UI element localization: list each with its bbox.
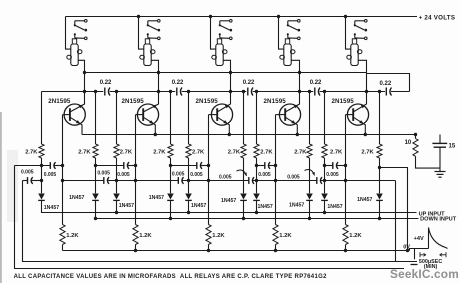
svg-text:0.005: 0.005	[44, 172, 57, 178]
svg-text:0.22: 0.22	[310, 80, 322, 86]
svg-text:1.2K: 1.2K	[349, 233, 362, 239]
svg-text:DOWN INPUT: DOWN INPUT	[420, 217, 457, 223]
svg-text:1N457: 1N457	[191, 203, 206, 209]
svg-text:1.2K: 1.2K	[66, 233, 79, 239]
svg-text:2.7K: 2.7K	[25, 149, 38, 155]
svg-text:0.005: 0.005	[117, 172, 130, 178]
svg-text:2N1595: 2N1595	[196, 98, 219, 105]
svg-text:1N457: 1N457	[119, 203, 134, 209]
svg-text:1.2K: 1.2K	[279, 233, 292, 239]
svg-text:ALL CAPACITANCE VALUES ARE IN: ALL CAPACITANCE VALUES ARE IN MICROFARAD…	[14, 274, 327, 280]
svg-text:2.7K: 2.7K	[361, 149, 374, 155]
svg-text:2N1595: 2N1595	[332, 98, 355, 105]
svg-text:1N457: 1N457	[289, 203, 304, 209]
svg-text:0.005: 0.005	[190, 172, 203, 178]
svg-text:2.7K: 2.7K	[192, 149, 205, 155]
svg-text:0.005: 0.005	[219, 175, 232, 181]
svg-text:1N457: 1N457	[221, 198, 236, 204]
svg-text:2.7K: 2.7K	[120, 149, 133, 155]
svg-text:0.005: 0.005	[97, 170, 110, 176]
svg-text:2.7K: 2.7K	[78, 149, 91, 155]
svg-text:0.22: 0.22	[100, 80, 112, 86]
svg-text:0.005: 0.005	[326, 172, 339, 178]
svg-text:1N457: 1N457	[327, 204, 342, 210]
svg-text:2.7K: 2.7K	[294, 149, 307, 155]
svg-text:0.22: 0.22	[380, 81, 392, 87]
svg-text:0.005: 0.005	[287, 174, 300, 180]
svg-text:+ 24 VOLTS: + 24 VOLTS	[419, 14, 456, 21]
svg-text:1.2K: 1.2K	[139, 233, 152, 239]
svg-text:2.7K: 2.7K	[228, 149, 241, 155]
svg-text:2N1595: 2N1595	[48, 98, 71, 105]
svg-text:0.22: 0.22	[172, 80, 184, 86]
svg-text:15: 15	[449, 143, 456, 149]
svg-text:0.005: 0.005	[21, 169, 34, 175]
svg-text:1N457: 1N457	[149, 195, 164, 201]
svg-text:2.7K: 2.7K	[260, 149, 273, 155]
svg-text:2N1595: 2N1595	[122, 98, 145, 105]
svg-text:1N457: 1N457	[258, 204, 273, 210]
svg-text:0V: 0V	[403, 244, 410, 250]
svg-text:+4V: +4V	[414, 236, 424, 242]
svg-text:0.22: 0.22	[243, 80, 255, 86]
svg-text:2.7K: 2.7K	[330, 149, 343, 155]
svg-text:SeekIC.com: SeekIC.com	[390, 267, 459, 281]
svg-text:0.005: 0.005	[172, 172, 185, 178]
svg-text:2N1595: 2N1595	[264, 98, 287, 105]
svg-text:2.7K: 2.7K	[153, 149, 166, 155]
svg-text:1N457: 1N457	[69, 195, 84, 201]
svg-text:0.005: 0.005	[258, 172, 271, 178]
svg-text:1.2K: 1.2K	[212, 233, 225, 239]
svg-text:1N457: 1N457	[357, 197, 372, 203]
svg-text:10: 10	[405, 140, 412, 146]
svg-text:1N457: 1N457	[44, 205, 59, 211]
